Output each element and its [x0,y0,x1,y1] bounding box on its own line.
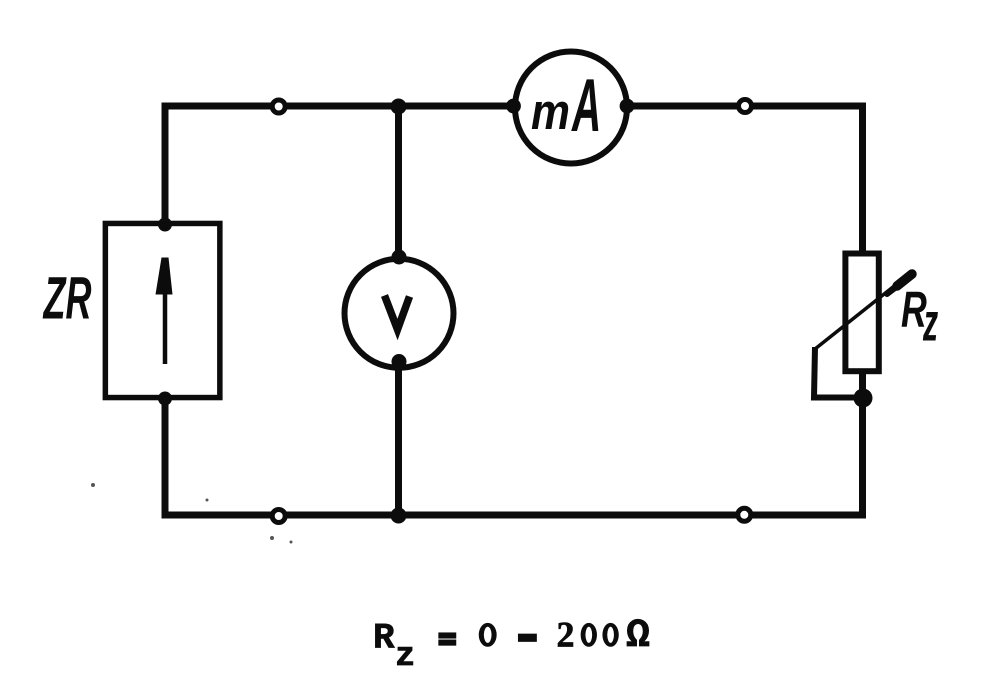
wire bottom [162,512,867,519]
letter R [902,292,927,327]
noise speck 4 [206,499,209,502]
junction dot top V branch [391,99,407,115]
junction dot V bottom [392,354,407,369]
junction dot bottom V branch [391,508,407,524]
wire right [859,103,866,516]
noise speck 1 [91,483,95,487]
junction dot mA right [620,99,635,114]
label Rz [902,292,938,341]
noise speck 3 [290,541,293,544]
junction dot ZR bottom [158,392,172,406]
source ZR box [105,223,220,397]
junction dot rheostat wiper [854,389,873,408]
source ZR arrow [156,258,173,365]
terminal top right [739,100,752,113]
junction dot ZR top [158,218,172,232]
wire voltmeter branch [395,106,402,515]
subscript z [923,312,938,341]
caption omega symbol [627,619,649,646]
caption digit 2 [558,623,573,647]
rheostat arrowhead [897,274,912,286]
terminal bottom right [738,508,751,521]
caption letter R [375,624,394,648]
wire left [162,103,169,516]
rheostat arrow diagonal [815,283,898,349]
junction dot mA left [506,99,521,114]
voltmeter letter V [385,296,410,330]
rheostat Rz box [845,254,878,372]
milliammeter letters mA [532,79,599,131]
caption subscript z [397,647,413,665]
terminal top left [272,100,285,113]
caption Rz = 0 - 200 Ohm [375,619,649,665]
voltmeter V [345,259,454,368]
caption digit 0 (units) [603,623,619,646]
label ZR [43,277,92,318]
rheostat wiper wire [814,347,863,398]
wire top [165,103,863,110]
noise speck 2 [270,536,274,540]
letter A [571,79,598,131]
caption digit 0 [479,623,496,646]
milliammeter mA [515,52,627,164]
letter m [532,102,568,129]
caption digit 0 (tens) [581,623,597,646]
junction dot V top [392,250,407,265]
caption equals sign [439,633,456,638]
caption dash [518,634,536,642]
terminal bottom left [272,510,285,523]
